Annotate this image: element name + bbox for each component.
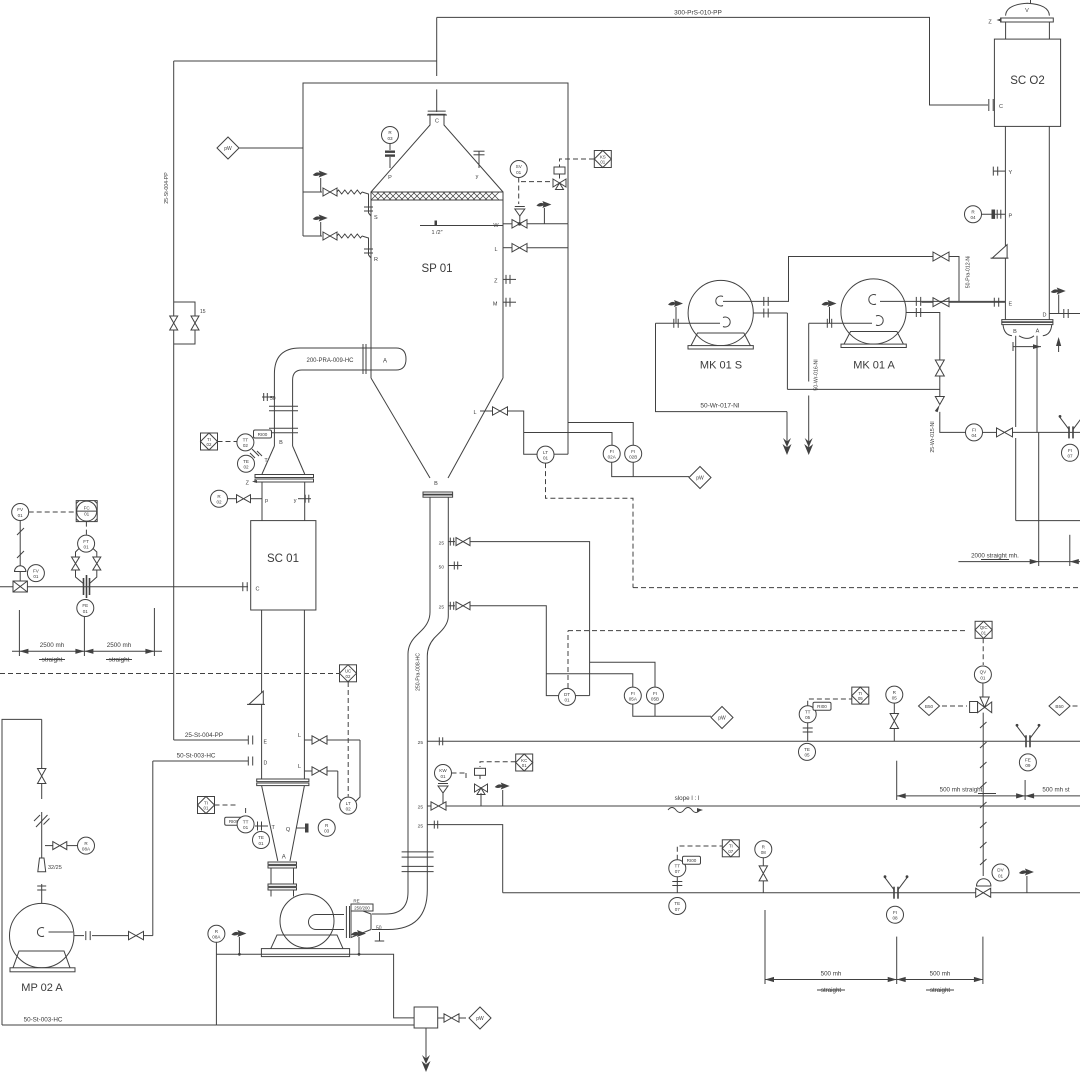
blower MK 01 A base xyxy=(841,332,906,348)
flange SC02 top xyxy=(1001,18,1054,22)
svg-text:1 /2″: 1 /2″ xyxy=(431,230,442,236)
instrument TI 01 xyxy=(198,797,215,814)
vent MK01A suction xyxy=(822,300,837,323)
valve L lower SC01 xyxy=(312,767,327,775)
nozzle y SC01 xyxy=(294,495,311,504)
wire bypass branch xyxy=(174,302,195,344)
3way valve KW01 xyxy=(475,784,488,806)
svg-text:FV: FV xyxy=(33,568,40,573)
label W nozzle xyxy=(493,223,499,229)
instrument QV 01 xyxy=(974,666,991,683)
valve L line xyxy=(512,244,527,252)
flange downcomer pair1 xyxy=(402,852,434,857)
vessel SC01 lower shell xyxy=(262,610,305,779)
label L nozzle xyxy=(494,247,497,253)
svg-text:FI: FI xyxy=(893,910,897,915)
pump outlet snout xyxy=(309,915,345,930)
svg-text:TT: TT xyxy=(805,710,811,715)
wire MK01A valve to junction xyxy=(939,376,941,398)
instrument FI 02A xyxy=(603,445,620,462)
nozzle y SP01 cone xyxy=(474,151,485,168)
svg-text:LT: LT xyxy=(543,450,548,455)
svg-text:50-St-003-HC: 50-St-003-HC xyxy=(24,1017,63,1024)
valve at 806 xyxy=(431,802,446,810)
instrument TI 07 xyxy=(722,840,739,857)
signal KW01 to valve xyxy=(452,773,467,780)
svg-text:01: 01 xyxy=(84,512,90,517)
diamond pW left xyxy=(217,137,239,159)
wire QV valve hatched drop xyxy=(980,713,987,876)
signal KS01 to 3way valve xyxy=(560,159,595,168)
damper TT02 xyxy=(250,449,262,458)
blower MK 01 A xyxy=(841,279,906,344)
dimension 2500 line xyxy=(12,649,162,654)
svg-text:04: 04 xyxy=(970,215,976,220)
svg-text:S: S xyxy=(374,215,378,221)
valve PI05 xyxy=(890,703,898,741)
instrument SV 01 xyxy=(510,161,527,178)
wire pipe 300-PrS-010-PP from SP01 overhead to SC02 inlet xyxy=(437,17,988,105)
flange MK01A port2 xyxy=(916,308,920,317)
pipe 250-Pra-008-HC xyxy=(372,496,448,930)
wire FI05B tap xyxy=(590,662,655,687)
svg-text:500 mh st: 500 mh st xyxy=(1042,787,1069,794)
instrument PI 08 xyxy=(755,841,772,858)
wire Q stub xyxy=(297,824,309,833)
wire QV01 to valve xyxy=(982,683,984,700)
svg-text:08A: 08A xyxy=(82,846,91,851)
label 200-PRA-009-HC xyxy=(306,358,354,364)
instrument RI00 TT01 xyxy=(225,817,243,825)
valve W line xyxy=(512,220,527,228)
label E nozzle SC01 xyxy=(264,740,268,746)
svg-text:05: 05 xyxy=(892,695,898,700)
orifice TT07 xyxy=(672,877,682,893)
wire 50-Wr-016-NI drop xyxy=(808,323,810,448)
flange SP01 nozzle C xyxy=(428,111,446,114)
slope symbol SC01 xyxy=(247,691,265,704)
label C nozzle SC01 xyxy=(256,587,260,593)
wire bypass to MK01A line xyxy=(787,388,939,390)
label 50-St-003-HC bottom xyxy=(24,1017,63,1024)
vessel SP01 top cone xyxy=(371,115,503,192)
svg-text:07: 07 xyxy=(675,907,681,912)
valve bypass left xyxy=(170,302,178,344)
wire spray branch 2 xyxy=(303,235,322,237)
wire stub at 806 from downcomer xyxy=(418,805,431,811)
stub 25 valve upper xyxy=(439,538,455,547)
svg-text:07: 07 xyxy=(675,869,681,874)
label A nozzle SP01 inlet xyxy=(383,359,387,365)
valve PI08 xyxy=(759,858,767,893)
svg-text:TE: TE xyxy=(258,835,264,840)
wire FI02A tap xyxy=(524,433,612,446)
svg-text:2500 mh: 2500 mh xyxy=(107,642,132,649)
label C nozzle SP01 xyxy=(435,119,439,125)
svg-text:B: B xyxy=(434,481,438,487)
flange pump discharge xyxy=(86,931,90,940)
signal dashed long line to right xyxy=(633,587,1080,589)
svg-text:TE: TE xyxy=(243,459,249,464)
svg-text:01: 01 xyxy=(516,170,522,175)
vessel SP01 shell xyxy=(371,200,503,378)
signal UC02 to LT02 xyxy=(347,682,349,797)
instrument PI 03 SP01 xyxy=(382,127,399,144)
svg-text:01: 01 xyxy=(980,675,986,680)
instrument PI 05 xyxy=(886,686,903,703)
blower MK 01 S base xyxy=(688,333,753,349)
wire FI04 line to right xyxy=(1013,431,1080,433)
label straight right xyxy=(106,657,132,664)
instrument FE 08 xyxy=(887,906,904,923)
instrument FI 05B xyxy=(647,687,664,704)
flange SC01 bottom wide xyxy=(257,779,309,786)
instrument KS 01 xyxy=(594,151,611,168)
wire main feed line xyxy=(0,586,248,588)
svg-text:200-PRA-009-HC: 200-PRA-009-HC xyxy=(306,358,354,364)
instrument LT 01 xyxy=(537,446,554,463)
svg-text:25: 25 xyxy=(418,805,424,811)
instrument TI 02 xyxy=(201,433,218,450)
instrument FC 01 xyxy=(76,501,97,522)
label B nozzle SP01 outlet xyxy=(434,481,438,487)
vessel SC02 neck xyxy=(1006,22,1050,39)
relief at KW01 xyxy=(438,784,448,807)
svg-text:04: 04 xyxy=(971,433,977,438)
label 1/2in xyxy=(431,230,442,236)
vessel SP01 bottom cone xyxy=(371,378,503,478)
label MK 01 A xyxy=(853,360,895,372)
instrument FE 01 xyxy=(77,600,94,617)
annubar FE08 xyxy=(884,875,909,898)
svg-text:pW: pW xyxy=(696,475,704,481)
wire PI04 to nozzle P xyxy=(982,210,1006,219)
actuator KC valve xyxy=(475,768,486,779)
svg-text:L: L xyxy=(473,410,476,416)
instrument RI00 TT05 xyxy=(813,702,831,710)
flange riser lower xyxy=(269,428,298,433)
nozzle Y SC02 xyxy=(993,167,1012,176)
valve pot outlet xyxy=(444,1014,459,1022)
svg-text:50: 50 xyxy=(376,926,382,932)
svg-text:y: y xyxy=(476,174,479,180)
vent near KW valve xyxy=(495,783,510,807)
nozzle D SC02 xyxy=(1043,309,1080,319)
wire FI02 outlets to pW xyxy=(612,462,689,476)
vessel SC01 inlet cone xyxy=(262,446,305,474)
pump MP 02 A xyxy=(10,903,74,967)
signal TT07-TI07 xyxy=(677,846,722,860)
svg-text:50-Wr-017-NI: 50-Wr-017-NI xyxy=(700,403,739,410)
svg-text:03: 03 xyxy=(387,136,393,141)
wire pump discharge xyxy=(74,761,153,936)
vent base left xyxy=(231,930,246,956)
annubar FE09 xyxy=(1016,724,1041,747)
label 25-St-004-PP top xyxy=(0,0,1,1)
svg-text:2000 straight mh.: 2000 straight mh. xyxy=(971,553,1019,560)
wire LT01 right leg xyxy=(555,453,569,455)
vessel SC02 body xyxy=(994,39,1060,126)
label A nozzle SC01 bottom xyxy=(282,855,286,861)
nozzle T SC01 cone xyxy=(255,822,276,832)
valve FT01 right leg xyxy=(93,557,101,570)
valve L upper SC01 xyxy=(312,736,327,744)
wire stub upper to DT tap xyxy=(470,542,590,696)
svg-text:09: 09 xyxy=(1025,763,1031,768)
svg-text:RE: RE xyxy=(353,899,359,904)
vessel SC02 dished bottom xyxy=(1003,325,1052,339)
wire pot drain xyxy=(425,1028,427,1055)
label 250-Pra-008-HC xyxy=(416,653,422,691)
svg-text:01: 01 xyxy=(204,806,209,811)
instrument PI 02 xyxy=(211,490,228,507)
vessel SC01 outlet neck xyxy=(271,868,294,897)
wire L nozzle line xyxy=(503,247,568,249)
svg-text:L: L xyxy=(298,764,301,770)
valve pump suction xyxy=(38,769,46,784)
flow arrow vertical under SC02 xyxy=(1056,337,1061,352)
label 50-St-003-HC at SC01 xyxy=(177,753,216,760)
svg-text:02B: 02B xyxy=(629,455,637,460)
label 25-St-004-PP vertical xyxy=(164,172,170,204)
svg-text:07: 07 xyxy=(1067,454,1073,459)
diamond B50 left xyxy=(919,697,940,716)
svg-text:y: y xyxy=(294,498,297,504)
svg-text:FI: FI xyxy=(610,449,614,454)
valve pump discharge xyxy=(129,931,144,939)
svg-text:07: 07 xyxy=(728,849,733,854)
hose spray 2 xyxy=(337,234,369,248)
wire MK01S suction xyxy=(656,319,721,328)
label L lower xyxy=(298,764,301,770)
svg-text:25-Wr-015-NI: 25-Wr-015-NI xyxy=(930,421,936,452)
signal B50 to QV valve xyxy=(942,705,967,707)
svg-text:01: 01 xyxy=(564,698,570,703)
slope symbol SC02 xyxy=(991,245,1009,259)
instrument KW 01 xyxy=(435,765,452,782)
svg-text:pW: pW xyxy=(476,1016,484,1022)
instrument PI 04 xyxy=(965,206,982,223)
svg-text:L: L xyxy=(298,733,301,739)
svg-text:E: E xyxy=(264,740,268,746)
label MK 01 S xyxy=(700,360,742,372)
continuation arrow pot drain xyxy=(422,1055,431,1072)
svg-text:B50: B50 xyxy=(1055,704,1064,709)
instrument FI 04 xyxy=(966,424,983,441)
svg-text:DV: DV xyxy=(997,868,1004,873)
nozzle L SP01 cone xyxy=(473,410,492,416)
label 300-PrS-010-PP xyxy=(674,10,722,17)
svg-text:01: 01 xyxy=(83,609,89,614)
continuation arrow MK01S drain xyxy=(783,438,792,455)
dimension 500 upper line xyxy=(897,793,1080,798)
signal TT05-TI05 xyxy=(808,699,852,706)
label p nozzle xyxy=(265,498,268,504)
blower MK 01 S xyxy=(688,280,753,345)
nozzle S SP01 xyxy=(364,205,378,221)
flange SC02 bottom xyxy=(1002,320,1053,325)
signal SV01 to relief xyxy=(518,178,520,205)
svg-text:03: 03 xyxy=(324,829,330,834)
svg-text:05: 05 xyxy=(858,696,863,701)
svg-text:TT: TT xyxy=(243,820,249,825)
label 500 mh straight upper xyxy=(940,787,996,794)
label 50-Wr-017-NI xyxy=(700,403,739,410)
svg-text:C: C xyxy=(256,587,260,593)
diamond pW mid xyxy=(689,467,711,489)
svg-text:01: 01 xyxy=(258,841,264,846)
label slope 1:1 xyxy=(675,795,700,802)
svg-text:SP 01: SP 01 xyxy=(421,263,452,275)
nozzle R SP01 xyxy=(364,248,378,263)
flange riser upper xyxy=(269,406,298,411)
signal TI01 to TT01 xyxy=(215,805,246,815)
label SP01 xyxy=(421,263,452,275)
instrument RI00 TT07 xyxy=(683,856,701,864)
wire W nozzle line xyxy=(503,223,568,225)
svg-text:01: 01 xyxy=(84,544,90,549)
svg-text:slope l : l: slope l : l xyxy=(675,795,700,802)
svg-text:25-St-004-PP: 25-St-004-PP xyxy=(164,172,170,204)
label D nozzle SC01 xyxy=(264,761,268,767)
svg-text:500 mh: 500 mh xyxy=(821,971,842,978)
label Z nozzle SC02 xyxy=(988,18,1001,25)
dimension 500 lower line xyxy=(765,977,983,982)
signal FV01-FC01 xyxy=(29,511,76,513)
wire to FI04 line xyxy=(940,412,966,433)
svg-text:32/25: 32/25 xyxy=(48,865,62,871)
pump base xyxy=(261,935,349,957)
svg-text:TE: TE xyxy=(674,901,680,906)
instrument FE 09 xyxy=(1019,754,1036,771)
label SC01 xyxy=(267,553,299,565)
svg-text:01: 01 xyxy=(543,455,549,460)
wire spray branch 1 xyxy=(303,191,322,193)
dimension 2500 extensions xyxy=(19,608,154,656)
flange MK01A discharge xyxy=(916,297,920,306)
svg-text:02: 02 xyxy=(216,500,222,505)
wire L upper valve SC01 xyxy=(304,740,360,803)
svg-text:08: 08 xyxy=(892,916,898,921)
instrument TT 05 xyxy=(799,706,816,723)
vent DV01 xyxy=(1019,869,1034,893)
nozzle M SP01 xyxy=(493,298,516,308)
label y nozzle SP01 xyxy=(476,174,479,180)
svg-text:25: 25 xyxy=(418,740,424,746)
label MP 02 A xyxy=(21,982,63,994)
label E nozzle SC02 xyxy=(1009,302,1013,308)
instrument TE 02 xyxy=(238,455,255,472)
instrument QIC 01 xyxy=(975,621,992,638)
flange MK01S port2 xyxy=(764,309,768,318)
valve crossover header xyxy=(933,252,949,261)
label B nozzle SC01 top xyxy=(279,440,283,446)
wire SP01 riser to overheads xyxy=(436,17,438,112)
svg-text:02A: 02A xyxy=(608,455,617,460)
instrument TE 01 xyxy=(253,832,270,849)
annubar FI07 xyxy=(1059,415,1080,438)
signal dashed level line left xyxy=(0,673,339,675)
svg-text:B: B xyxy=(279,440,283,446)
svg-text:B50: B50 xyxy=(925,704,934,709)
svg-text:TE: TE xyxy=(804,747,810,752)
hose spray 1 xyxy=(337,190,369,205)
svg-text:01: 01 xyxy=(243,825,249,830)
instrument TE 05 xyxy=(799,743,816,760)
valve p nozzle xyxy=(237,495,251,503)
svg-text:50-St-003-HC: 50-St-003-HC xyxy=(177,753,216,760)
diamond pW bottom xyxy=(469,1007,491,1029)
svg-text:RI00: RI00 xyxy=(817,704,827,709)
instrument DV 01 xyxy=(992,864,1009,881)
wire 50-Wr-017-NI loop xyxy=(656,323,788,411)
svg-text:250-Pra-008-HC: 250-Pra-008-HC xyxy=(416,653,422,691)
instrument FI 07 xyxy=(1062,444,1079,461)
drain pot xyxy=(414,1007,438,1028)
instrument TT 07 xyxy=(669,860,686,877)
svg-text:FI: FI xyxy=(1068,448,1072,453)
wire DT01 right leg xyxy=(576,695,590,697)
pipe 200-PRA-009-HC elbow xyxy=(274,348,406,406)
flange pump suction xyxy=(37,886,46,890)
instrument TT 02 xyxy=(237,434,254,451)
reducer 32/25 xyxy=(38,858,62,872)
dome trap bottom xyxy=(977,879,991,886)
svg-text:RI00: RI00 xyxy=(687,858,697,863)
wire FI04 to valve xyxy=(983,431,997,433)
wire 25-St-004-PP main vertical xyxy=(174,61,437,740)
label V nozzle SC02 xyxy=(1025,8,1029,14)
flange E SC01 inlet xyxy=(248,736,252,745)
vent base right xyxy=(351,930,366,956)
wire MK01S port2 xyxy=(753,312,787,314)
svg-text:500 mh: 500 mh xyxy=(930,971,951,978)
svg-text:01: 01 xyxy=(981,630,986,635)
svg-text:50: 50 xyxy=(270,396,276,402)
svg-text:C: C xyxy=(435,119,439,125)
flange nozzle E SC02 xyxy=(994,298,998,307)
label T nozzle SC01 xyxy=(264,458,268,464)
dimension 2000 extension xyxy=(1039,432,1070,566)
label 25-Wr-015-NI xyxy=(930,421,936,452)
wire L lower valve SC01 xyxy=(304,771,342,802)
valve FT01 left leg xyxy=(72,557,80,570)
wire 50-St-003-HC to SC01 xyxy=(153,760,248,762)
svg-text:25: 25 xyxy=(418,823,424,829)
svg-text:C: C xyxy=(999,104,1003,110)
svg-text:P: P xyxy=(388,175,392,181)
svg-text:FI: FI xyxy=(631,449,635,454)
svg-text:FV: FV xyxy=(17,507,24,512)
wire line4 loop down xyxy=(440,825,503,893)
svg-text:A: A xyxy=(383,359,387,365)
svg-text:15: 15 xyxy=(200,309,206,315)
wire drop to drain arrow A xyxy=(786,412,788,448)
vessel SC02 column shell xyxy=(1005,126,1049,319)
wire FI02B tap xyxy=(568,423,633,446)
label 500 mh lower left xyxy=(821,971,842,978)
wire MK01S port2 drop xyxy=(786,313,788,389)
wire 50-St-003 bottom xyxy=(2,1024,414,1026)
wire PI08A branch xyxy=(45,845,78,847)
valve bypass right xyxy=(191,310,199,336)
wire SC01 riser xyxy=(274,406,292,446)
svg-text:01: 01 xyxy=(33,574,39,579)
svg-text:05A: 05A xyxy=(629,696,638,701)
wire MK01A suction xyxy=(809,319,872,328)
instrument PI 08A xyxy=(78,837,95,854)
svg-text:R: R xyxy=(374,257,378,263)
